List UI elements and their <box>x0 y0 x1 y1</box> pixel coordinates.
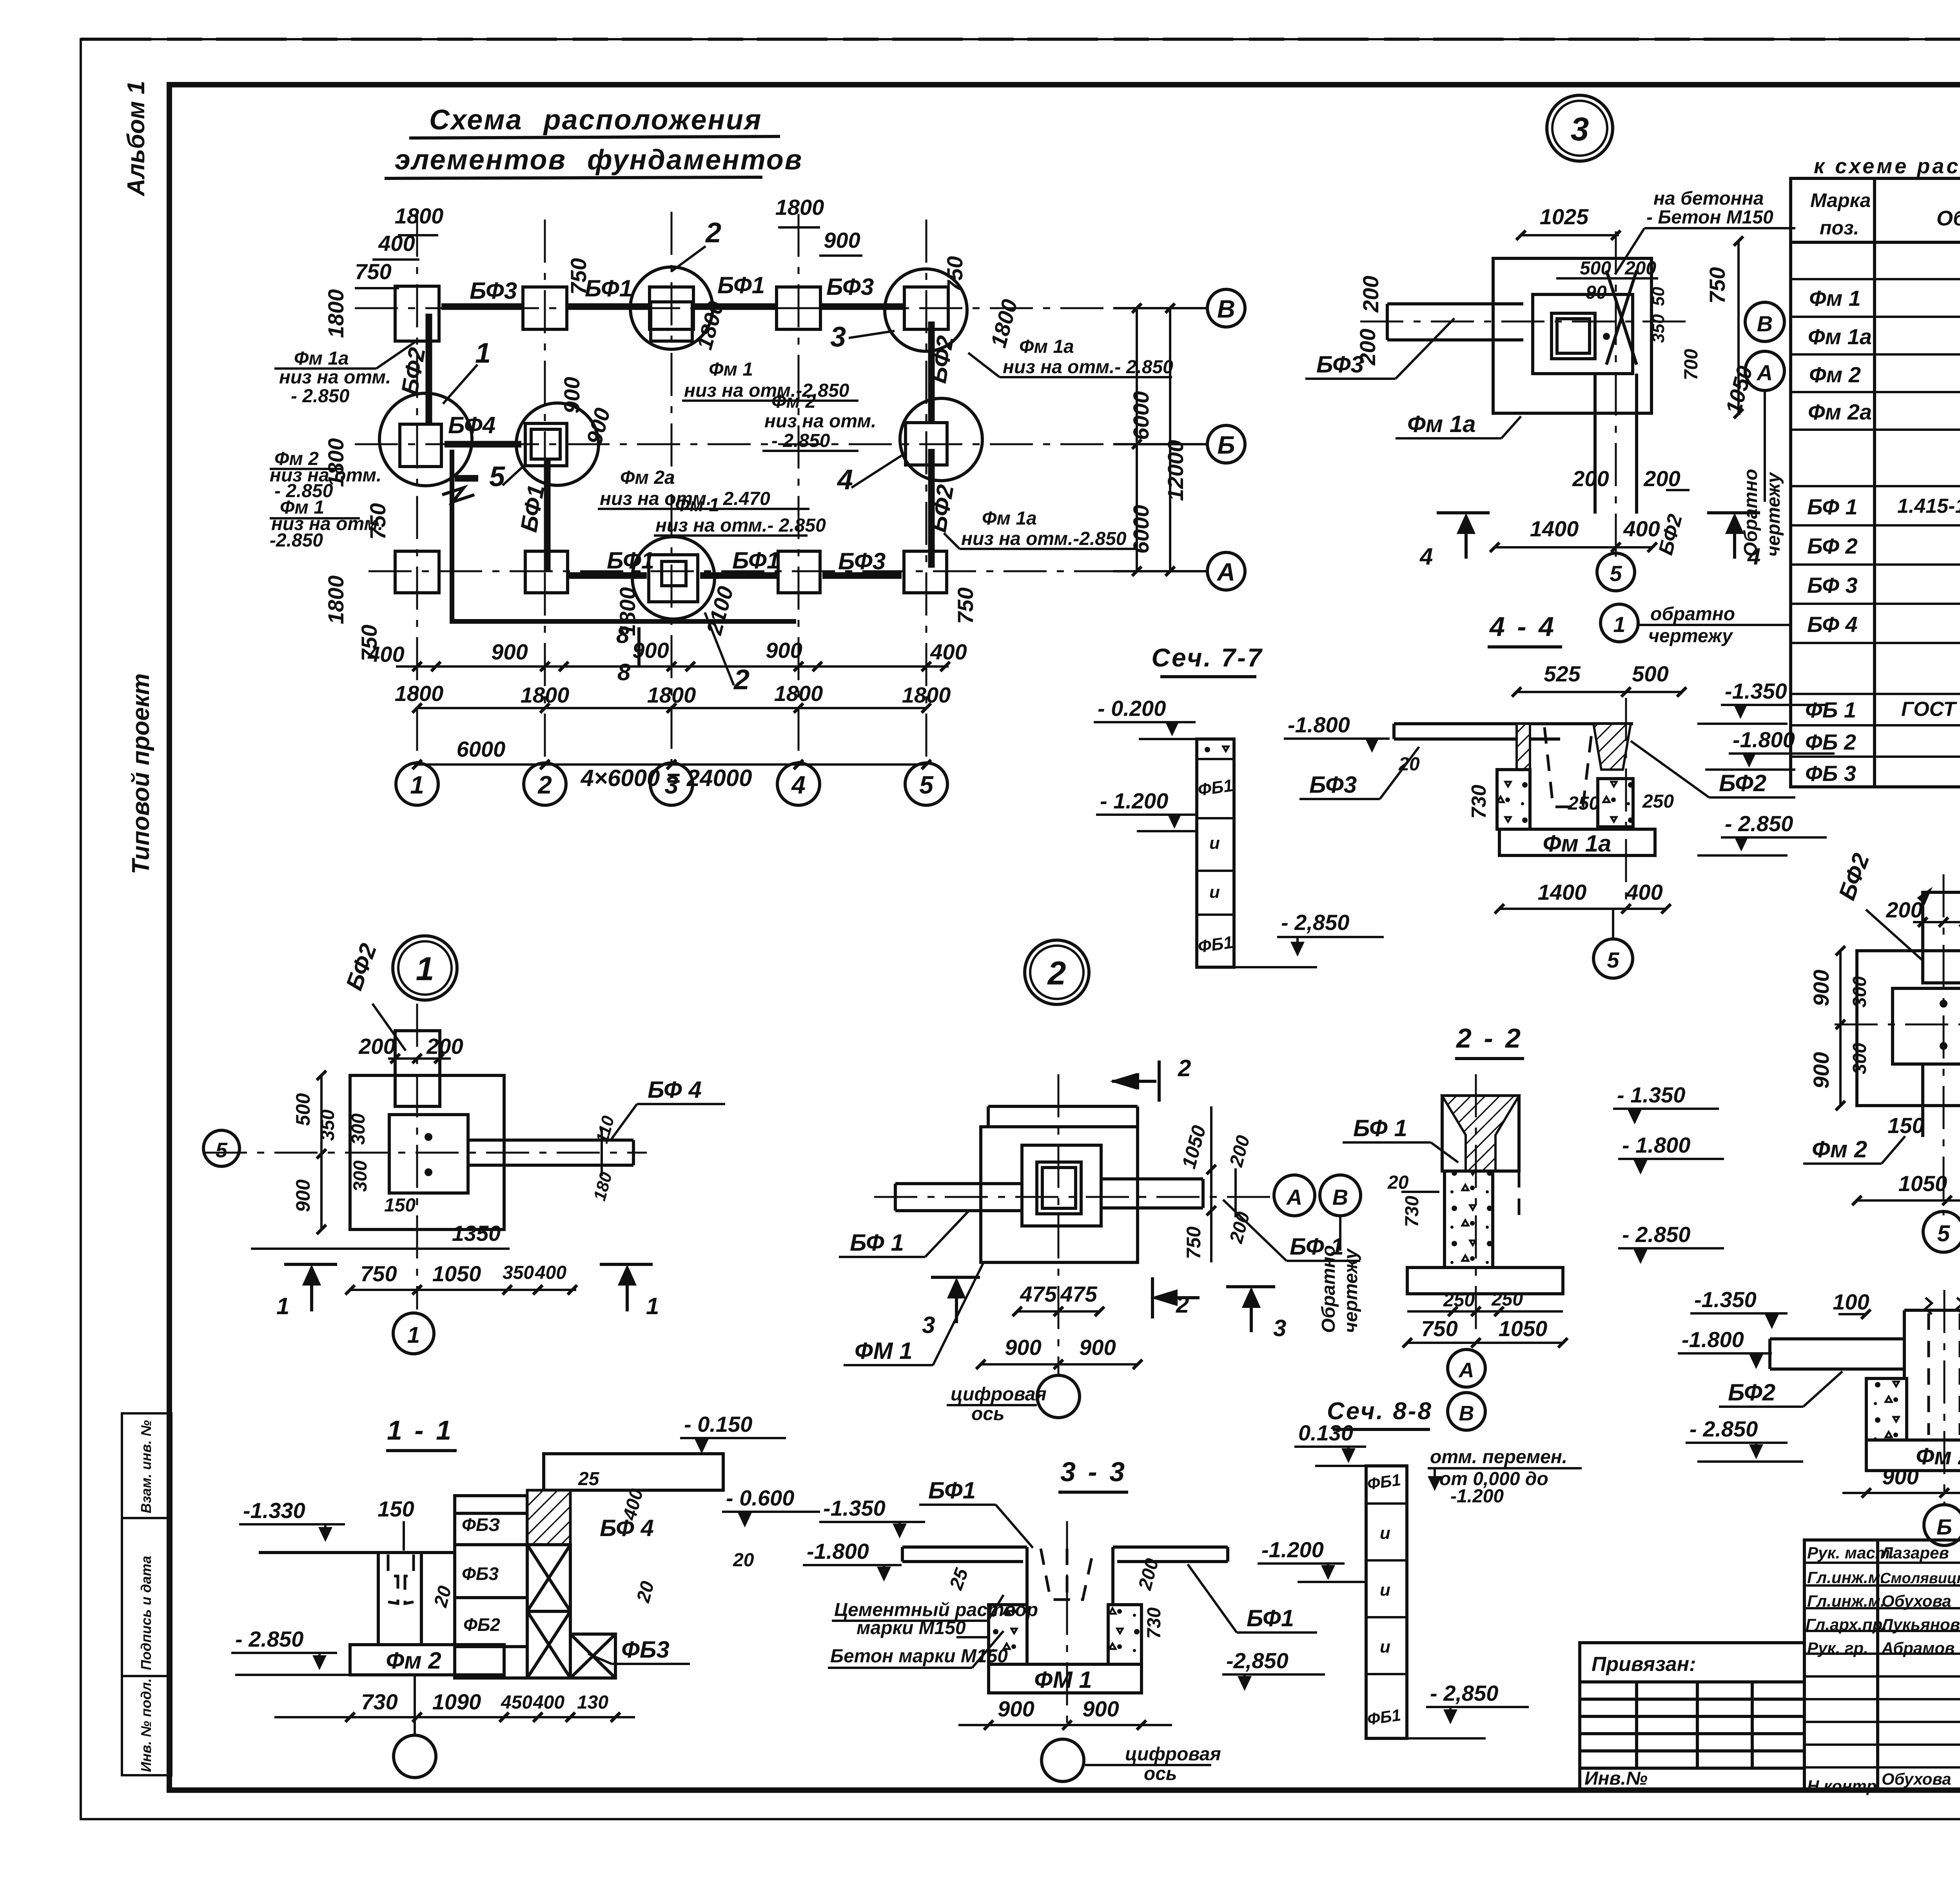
svg-text:БФ 1: БФ 1 <box>1807 494 1858 519</box>
svg-text:300: 300 <box>348 1113 369 1145</box>
svg-text:А: А <box>1458 1358 1474 1382</box>
svg-text:БФ2: БФ2 <box>1728 1379 1775 1406</box>
svg-text:Схема расположения: Схема расположения <box>429 104 762 136</box>
svg-text:1800: 1800 <box>774 681 823 706</box>
svg-text:3: 3 <box>1273 1315 1286 1341</box>
svg-text:Типовой проект: Типовой проект <box>127 673 154 874</box>
svg-text:500: 500 <box>1632 661 1668 686</box>
svg-text:низ на отм.- 2.850: низ на отм.- 2.850 <box>1003 357 1173 378</box>
svg-text:БФ2: БФ2 <box>396 345 430 397</box>
svg-text:0.130: 0.130 <box>1298 1420 1353 1445</box>
svg-text:250: 250 <box>1491 1289 1523 1310</box>
svg-text:БФ3: БФ3 <box>826 274 874 300</box>
svg-text:- 2.850: - 2.850 <box>1725 811 1793 836</box>
svg-text:50: 50 <box>1649 287 1668 306</box>
svg-text:отм. перемен.: отм. перемен. <box>1430 1447 1567 1467</box>
svg-text:низ на отм.-2.850: низ на отм.-2.850 <box>961 528 1127 549</box>
svg-text:1025: 1025 <box>1540 204 1589 229</box>
svg-text:750: 750 <box>355 259 391 284</box>
svg-text:БФ1: БФ1 <box>732 547 780 574</box>
svg-text:-1.800: -1.800 <box>1682 1327 1744 1352</box>
svg-text:750: 750 <box>360 1261 397 1286</box>
svg-text:3: 3 <box>830 321 846 353</box>
svg-text:100: 100 <box>1833 1289 1869 1314</box>
svg-text:400: 400 <box>535 1262 566 1283</box>
svg-text:БФ 4: БФ 4 <box>1807 612 1858 637</box>
svg-text:750: 750 <box>1705 267 1730 303</box>
svg-text:БФ3: БФ3 <box>470 278 517 304</box>
svg-text:Привязан:: Привязан: <box>1592 1653 1696 1676</box>
svg-text:Абрамов: Абрамов <box>1881 1639 1955 1657</box>
svg-text:чертежу: чертежу <box>1648 626 1733 646</box>
svg-text:200: 200 <box>1643 466 1680 491</box>
svg-text:730: 730 <box>1468 785 1490 819</box>
svg-text:и: и <box>1380 1637 1390 1656</box>
svg-text:1800: 1800 <box>395 203 444 228</box>
svg-text:2: 2 <box>733 664 750 696</box>
svg-text:- 2,850: - 2,850 <box>1430 1681 1498 1705</box>
svg-text:Обратно: Обратно <box>1740 469 1761 557</box>
svg-text:-1.350: -1.350 <box>1694 1287 1757 1312</box>
svg-text:2 - 2: 2 - 2 <box>1455 1023 1523 1053</box>
svg-text:цифровая: цифровая <box>951 1384 1047 1405</box>
svg-text:750: 750 <box>1421 1316 1457 1341</box>
svg-text:400: 400 <box>1623 516 1660 541</box>
svg-text:ФБ2: ФБ2 <box>463 1614 500 1635</box>
svg-text:Гл.инж.м.: Гл.инж.м. <box>1807 1568 1885 1587</box>
svg-text:Фм 1а: Фм 1а <box>1019 336 1074 357</box>
svg-text:поз.: поз. <box>1820 217 1859 239</box>
svg-text:180: 180 <box>590 1170 616 1203</box>
svg-text:200: 200 <box>1572 466 1609 491</box>
svg-text:1050: 1050 <box>1178 1123 1210 1171</box>
svg-text:4 - 4: 4 - 4 <box>1489 611 1556 642</box>
svg-text:низ на отм.: низ на отм. <box>279 367 391 388</box>
svg-text:150: 150 <box>1887 1113 1924 1138</box>
svg-text:Гл.арх.пр.: Гл.арх.пр. <box>1806 1615 1887 1634</box>
svg-text:Фм 2: Фм 2 <box>1812 1136 1867 1162</box>
svg-text:4: 4 <box>1419 543 1433 570</box>
svg-text:БФ 4: БФ 4 <box>648 1077 702 1103</box>
svg-text:1350: 1350 <box>452 1221 501 1246</box>
svg-text:900: 900 <box>998 1696 1034 1721</box>
svg-text:БФ 1: БФ 1 <box>1353 1115 1407 1141</box>
svg-text:Фм 1а: Фм 1а <box>1407 411 1476 437</box>
svg-text:А: А <box>1216 558 1235 586</box>
svg-text:5: 5 <box>216 1139 228 1162</box>
svg-text:200: 200 <box>1886 897 1922 922</box>
svg-text:5: 5 <box>1610 561 1622 586</box>
svg-text:1.415-1 вып. 1: 1.415-1 вып. 1 <box>1897 495 1960 518</box>
svg-text:БФ1: БФ1 <box>1247 1605 1294 1631</box>
svg-text:25: 25 <box>578 1469 600 1489</box>
svg-text:В: В <box>1757 311 1773 336</box>
svg-text:150: 150 <box>377 1496 414 1521</box>
svg-text:6000: 6000 <box>1129 391 1153 440</box>
svg-text:Фм 1а: Фм 1а <box>1543 830 1612 857</box>
svg-text:Фм 2а: Фм 2а <box>1808 400 1872 424</box>
svg-text:ФБ1: ФБ1 <box>1366 1470 1402 1493</box>
svg-text:Обухова: Обухова <box>1882 1592 1951 1610</box>
svg-text:400: 400 <box>930 639 967 664</box>
svg-text:и: и <box>1209 883 1220 902</box>
svg-text:20: 20 <box>633 1579 658 1605</box>
svg-text:ФМ 1: ФМ 1 <box>855 1338 913 1364</box>
svg-text:25: 25 <box>946 1565 973 1593</box>
svg-text:1800: 1800 <box>647 683 696 707</box>
svg-text:обратно: обратно <box>1650 604 1735 625</box>
svg-text:900: 900 <box>1809 970 1833 1006</box>
svg-text:475: 475 <box>1020 1282 1057 1306</box>
svg-text:350: 350 <box>503 1262 534 1283</box>
svg-text:БФ1: БФ1 <box>717 272 765 298</box>
svg-text:- Бетон М150: - Бетон М150 <box>1646 207 1773 228</box>
svg-text:Б: Б <box>1936 1515 1952 1539</box>
svg-text:1: 1 <box>276 1293 289 1319</box>
svg-text:450: 450 <box>501 1692 532 1713</box>
svg-text:1090: 1090 <box>432 1689 481 1714</box>
svg-text:400: 400 <box>367 642 404 666</box>
svg-text:900: 900 <box>1082 1696 1119 1721</box>
svg-text:-1.350: -1.350 <box>1725 679 1787 703</box>
svg-text:200: 200 <box>1226 1133 1254 1169</box>
svg-text:200: 200 <box>1355 329 1380 365</box>
svg-text:90: 90 <box>1586 282 1607 303</box>
svg-text:2: 2 <box>1178 1055 1191 1081</box>
svg-text:- 1.200: - 1.200 <box>1100 788 1168 813</box>
svg-text:Сеч. 7-7: Сеч. 7-7 <box>1151 643 1263 672</box>
svg-text:Марка: Марка <box>1810 189 1871 211</box>
svg-text:700: 700 <box>1681 349 1702 380</box>
svg-text:Фм 1а: Фм 1а <box>1808 324 1872 349</box>
svg-text:200: 200 <box>1624 258 1656 279</box>
svg-text:-1.800: -1.800 <box>1288 712 1350 737</box>
svg-text:Обозначение: Обозначение <box>1936 207 1960 230</box>
svg-text:250: 250 <box>1568 793 1599 814</box>
svg-text:900: 900 <box>491 639 528 664</box>
svg-text:200: 200 <box>1226 1209 1254 1246</box>
svg-text:БФ1: БФ1 <box>607 547 654 574</box>
svg-text:1800: 1800 <box>323 289 348 338</box>
svg-text:1800: 1800 <box>775 195 824 220</box>
svg-text:250: 250 <box>1443 1290 1475 1311</box>
svg-text:730: 730 <box>1144 1607 1165 1639</box>
svg-text:5: 5 <box>919 771 934 799</box>
svg-text:и: и <box>1209 834 1220 853</box>
svg-text:БФ2: БФ2 <box>1719 770 1766 796</box>
svg-text:- 2.850: - 2.850 <box>291 386 350 407</box>
svg-text:ФМ 1: ФМ 1 <box>1034 1667 1092 1693</box>
svg-text:8: 8 <box>616 622 630 648</box>
svg-text:130: 130 <box>577 1692 608 1713</box>
svg-text:Обратно: Обратно <box>1318 1245 1339 1333</box>
svg-text:низ на отм.- 2.850: низ на отм.- 2.850 <box>655 515 826 536</box>
svg-text:Фм 2а: Фм 2а <box>620 467 675 488</box>
svg-text:5: 5 <box>1607 948 1619 972</box>
svg-text:- 2,850: - 2,850 <box>1281 910 1349 935</box>
svg-text:1800: 1800 <box>521 683 570 707</box>
svg-text:900: 900 <box>559 377 584 413</box>
svg-text:БФ2: БФ2 <box>1833 850 1874 904</box>
svg-text:В: В <box>1459 1402 1474 1425</box>
svg-text:5: 5 <box>1937 1221 1950 1246</box>
svg-text:1: 1 <box>416 950 434 987</box>
svg-text:900: 900 <box>1005 1335 1041 1360</box>
svg-text:Рук. маст.: Рук. маст. <box>1807 1544 1894 1562</box>
svg-text:Взам. инв. №: Взам. инв. № <box>138 1420 154 1513</box>
svg-text:- 2.850: - 2.850 <box>771 430 830 451</box>
svg-text:2100: 2100 <box>701 584 738 638</box>
svg-text:ФБ 1: ФБ 1 <box>1805 697 1856 722</box>
svg-text:900: 900 <box>1882 1464 1918 1489</box>
svg-text:1: 1 <box>1613 612 1625 637</box>
svg-text:ФБ 3: ФБ 3 <box>1805 761 1856 786</box>
svg-text:В: В <box>1217 295 1235 323</box>
svg-text:БФ1: БФ1 <box>928 1477 976 1504</box>
svg-text:1: 1 <box>407 1322 420 1348</box>
svg-text:1800: 1800 <box>395 681 444 706</box>
svg-text:чертежу: чертежу <box>1341 1248 1361 1333</box>
svg-text:-1.200: -1.200 <box>1450 1486 1504 1507</box>
svg-text:Смолявицкая: Смолявицкая <box>1880 1570 1960 1587</box>
svg-text:Фм 1а: Фм 1а <box>982 508 1037 529</box>
svg-text:цифровая: цифровая <box>1125 1744 1221 1765</box>
svg-text:6000: 6000 <box>1129 505 1153 554</box>
svg-text:1050: 1050 <box>1898 1171 1947 1196</box>
svg-text:3: 3 <box>922 1312 935 1338</box>
svg-text:- 0.200: - 0.200 <box>1098 696 1166 721</box>
svg-text:1: 1 <box>410 771 424 799</box>
svg-text:БФ 2: БФ 2 <box>1807 534 1858 558</box>
svg-text:к схеме расположения элемен: к схеме расположения элементов фундамент… <box>1814 154 1960 178</box>
svg-text:ФБ3: ФБ3 <box>462 1564 499 1584</box>
svg-text:-1.330: -1.330 <box>243 1498 305 1523</box>
svg-text:2: 2 <box>537 771 552 799</box>
svg-text:- 2.850: - 2.850 <box>1622 1222 1690 1247</box>
svg-text:6000: 6000 <box>457 737 506 761</box>
svg-text:Гл.инж.м.: Гл.инж.м. <box>1807 1592 1885 1610</box>
svg-text:1800: 1800 <box>323 576 348 625</box>
svg-text:900: 900 <box>824 228 860 252</box>
svg-text:200: 200 <box>426 1034 463 1059</box>
svg-text:200: 200 <box>1358 276 1383 312</box>
svg-text:В: В <box>1332 1185 1348 1209</box>
svg-text:1050: 1050 <box>1499 1316 1548 1341</box>
svg-text:А: А <box>1756 360 1773 385</box>
svg-text:элементов фундаментов: элементов фундаментов <box>395 144 803 176</box>
svg-text:чертежу: чертежу <box>1763 472 1784 557</box>
svg-text:900: 900 <box>766 638 802 663</box>
svg-text:Лукьянов: Лукьянов <box>1880 1615 1960 1634</box>
svg-text:400: 400 <box>378 231 415 256</box>
svg-text:1050: 1050 <box>1721 363 1757 417</box>
svg-text:Фм 1а: Фм 1а <box>294 348 349 369</box>
svg-text:3 - 3: 3 - 3 <box>1060 1456 1127 1487</box>
svg-text:ось: ось <box>971 1404 1005 1424</box>
svg-text:500: 500 <box>1580 258 1611 279</box>
svg-text:Фм 1: Фм 1 <box>709 359 753 380</box>
svg-text:1400: 1400 <box>1530 516 1579 541</box>
svg-text:300: 300 <box>350 1160 371 1192</box>
svg-text:Инв.№: Инв.№ <box>1584 1768 1648 1789</box>
svg-text:-2,850: -2,850 <box>1226 1648 1289 1673</box>
svg-text:БФ3: БФ3 <box>1309 772 1357 798</box>
svg-text:900: 900 <box>1079 1335 1116 1360</box>
svg-text:2: 2 <box>1176 1291 1189 1318</box>
svg-text:- 0.150: - 0.150 <box>684 1412 752 1436</box>
svg-text:900: 900 <box>582 405 615 447</box>
svg-text:Н.контр.: Н.контр. <box>1807 1777 1881 1795</box>
svg-text:низ на отм.: низ на отм. <box>764 411 876 432</box>
svg-text:ось: ось <box>1144 1763 1177 1784</box>
svg-text:750: 750 <box>1183 1226 1205 1259</box>
svg-text:400: 400 <box>533 1692 564 1713</box>
svg-text:- 2.850: - 2.850 <box>1690 1416 1758 1441</box>
svg-text:20: 20 <box>733 1550 754 1571</box>
svg-text:4×6000 = 24000: 4×6000 = 24000 <box>580 765 752 791</box>
svg-text:ФБЗ: ФБЗ <box>462 1515 500 1535</box>
svg-text:-1.350: -1.350 <box>823 1496 886 1520</box>
svg-text:400: 400 <box>1626 880 1662 904</box>
svg-text:ГОСТ 13579-78: ГОСТ 13579-78 <box>1901 698 1960 721</box>
svg-text:-2.850: -2.850 <box>270 530 323 551</box>
svg-text:Инв. № подл.: Инв. № подл. <box>138 1678 154 1772</box>
svg-text:8: 8 <box>617 659 631 685</box>
svg-text:750: 750 <box>942 256 967 292</box>
svg-text:200: 200 <box>358 1034 395 1059</box>
svg-text:4: 4 <box>837 464 853 496</box>
svg-text:2: 2 <box>1047 955 1066 992</box>
svg-text:1800: 1800 <box>986 297 1022 350</box>
svg-text:150: 150 <box>384 1195 416 1216</box>
svg-text:Рук. гр.: Рук. гр. <box>1807 1639 1868 1657</box>
svg-text:350: 350 <box>318 1110 338 1141</box>
svg-text:1050: 1050 <box>432 1261 481 1286</box>
svg-text:350: 350 <box>1649 314 1668 343</box>
svg-text:-1.800: -1.800 <box>807 1539 869 1564</box>
svg-text:1 - 1: 1 - 1 <box>387 1415 454 1446</box>
svg-text:- 2.850: - 2.850 <box>235 1627 303 1651</box>
svg-text:на бетонна: на бетонна <box>1653 188 1764 209</box>
svg-text:БФ 3: БФ 3 <box>1807 573 1858 597</box>
svg-text:ФБ3: ФБ3 <box>621 1636 670 1663</box>
svg-text:3: 3 <box>1571 111 1589 147</box>
svg-text:2: 2 <box>705 217 721 249</box>
svg-text:5: 5 <box>489 461 505 492</box>
svg-text:730: 730 <box>361 1689 397 1714</box>
svg-text:1: 1 <box>475 338 491 369</box>
svg-text:730: 730 <box>1402 1196 1423 1227</box>
svg-text:А: А <box>1286 1185 1302 1209</box>
svg-text:900: 900 <box>1809 1052 1833 1088</box>
svg-text:20: 20 <box>1387 1172 1409 1193</box>
svg-text:1: 1 <box>646 1293 659 1319</box>
svg-text:Фм 1: Фм 1 <box>675 495 719 516</box>
svg-text:Фм 2: Фм 2 <box>1916 1443 1960 1469</box>
svg-text:500: 500 <box>292 1093 314 1126</box>
svg-text:ФБ 2: ФБ 2 <box>1805 730 1856 754</box>
svg-text:Фм 2: Фм 2 <box>386 1647 441 1674</box>
svg-text:Подпись и дата: Подпись и дата <box>138 1556 154 1670</box>
svg-text:475: 475 <box>1060 1282 1097 1306</box>
svg-text:и: и <box>1380 1524 1390 1543</box>
svg-text:- 1.800: - 1.800 <box>1622 1133 1690 1157</box>
svg-text:- 0.600: - 0.600 <box>726 1485 794 1510</box>
svg-text:4: 4 <box>791 771 806 799</box>
svg-text:Альбом 1: Альбом 1 <box>123 81 150 197</box>
svg-text:и: и <box>1380 1580 1390 1600</box>
svg-text:900: 900 <box>292 1179 314 1212</box>
svg-text:-1.200: -1.200 <box>1261 1537 1324 1562</box>
svg-text:БФ1: БФ1 <box>585 275 632 301</box>
svg-text:низ на отм.-2.850: низ на отм.-2.850 <box>684 380 849 401</box>
svg-text:ФБ1: ФБ1 <box>1197 933 1234 957</box>
svg-text:Б: Б <box>1217 431 1235 459</box>
svg-text:750: 750 <box>953 587 978 624</box>
svg-text:12000: 12000 <box>1163 440 1188 501</box>
svg-text:БФ 1: БФ 1 <box>850 1229 904 1256</box>
svg-text:525: 525 <box>1544 661 1581 686</box>
svg-text:Фм 1: Фм 1 <box>1809 286 1861 311</box>
svg-text:ФБ1: ФБ1 <box>1197 776 1234 800</box>
svg-text:1800: 1800 <box>902 683 951 707</box>
svg-text:-1.800: -1.800 <box>1733 727 1795 752</box>
svg-text:300: 300 <box>1849 976 1870 1008</box>
svg-text:ФБ1: ФБ1 <box>1366 1705 1402 1728</box>
svg-text:БФ3: БФ3 <box>838 548 886 574</box>
svg-text:300: 300 <box>1849 1043 1870 1074</box>
svg-text:1400: 1400 <box>1538 880 1587 904</box>
svg-text:Фм 2: Фм 2 <box>1809 362 1861 387</box>
svg-text:250: 250 <box>1642 791 1674 812</box>
svg-text:- 1.350: - 1.350 <box>1617 1082 1685 1107</box>
svg-text:750: 750 <box>566 258 591 294</box>
svg-text:БФ2: БФ2 <box>341 940 381 994</box>
svg-text:20: 20 <box>430 1584 456 1610</box>
svg-text:Обухова: Обухова <box>1882 1770 1951 1788</box>
